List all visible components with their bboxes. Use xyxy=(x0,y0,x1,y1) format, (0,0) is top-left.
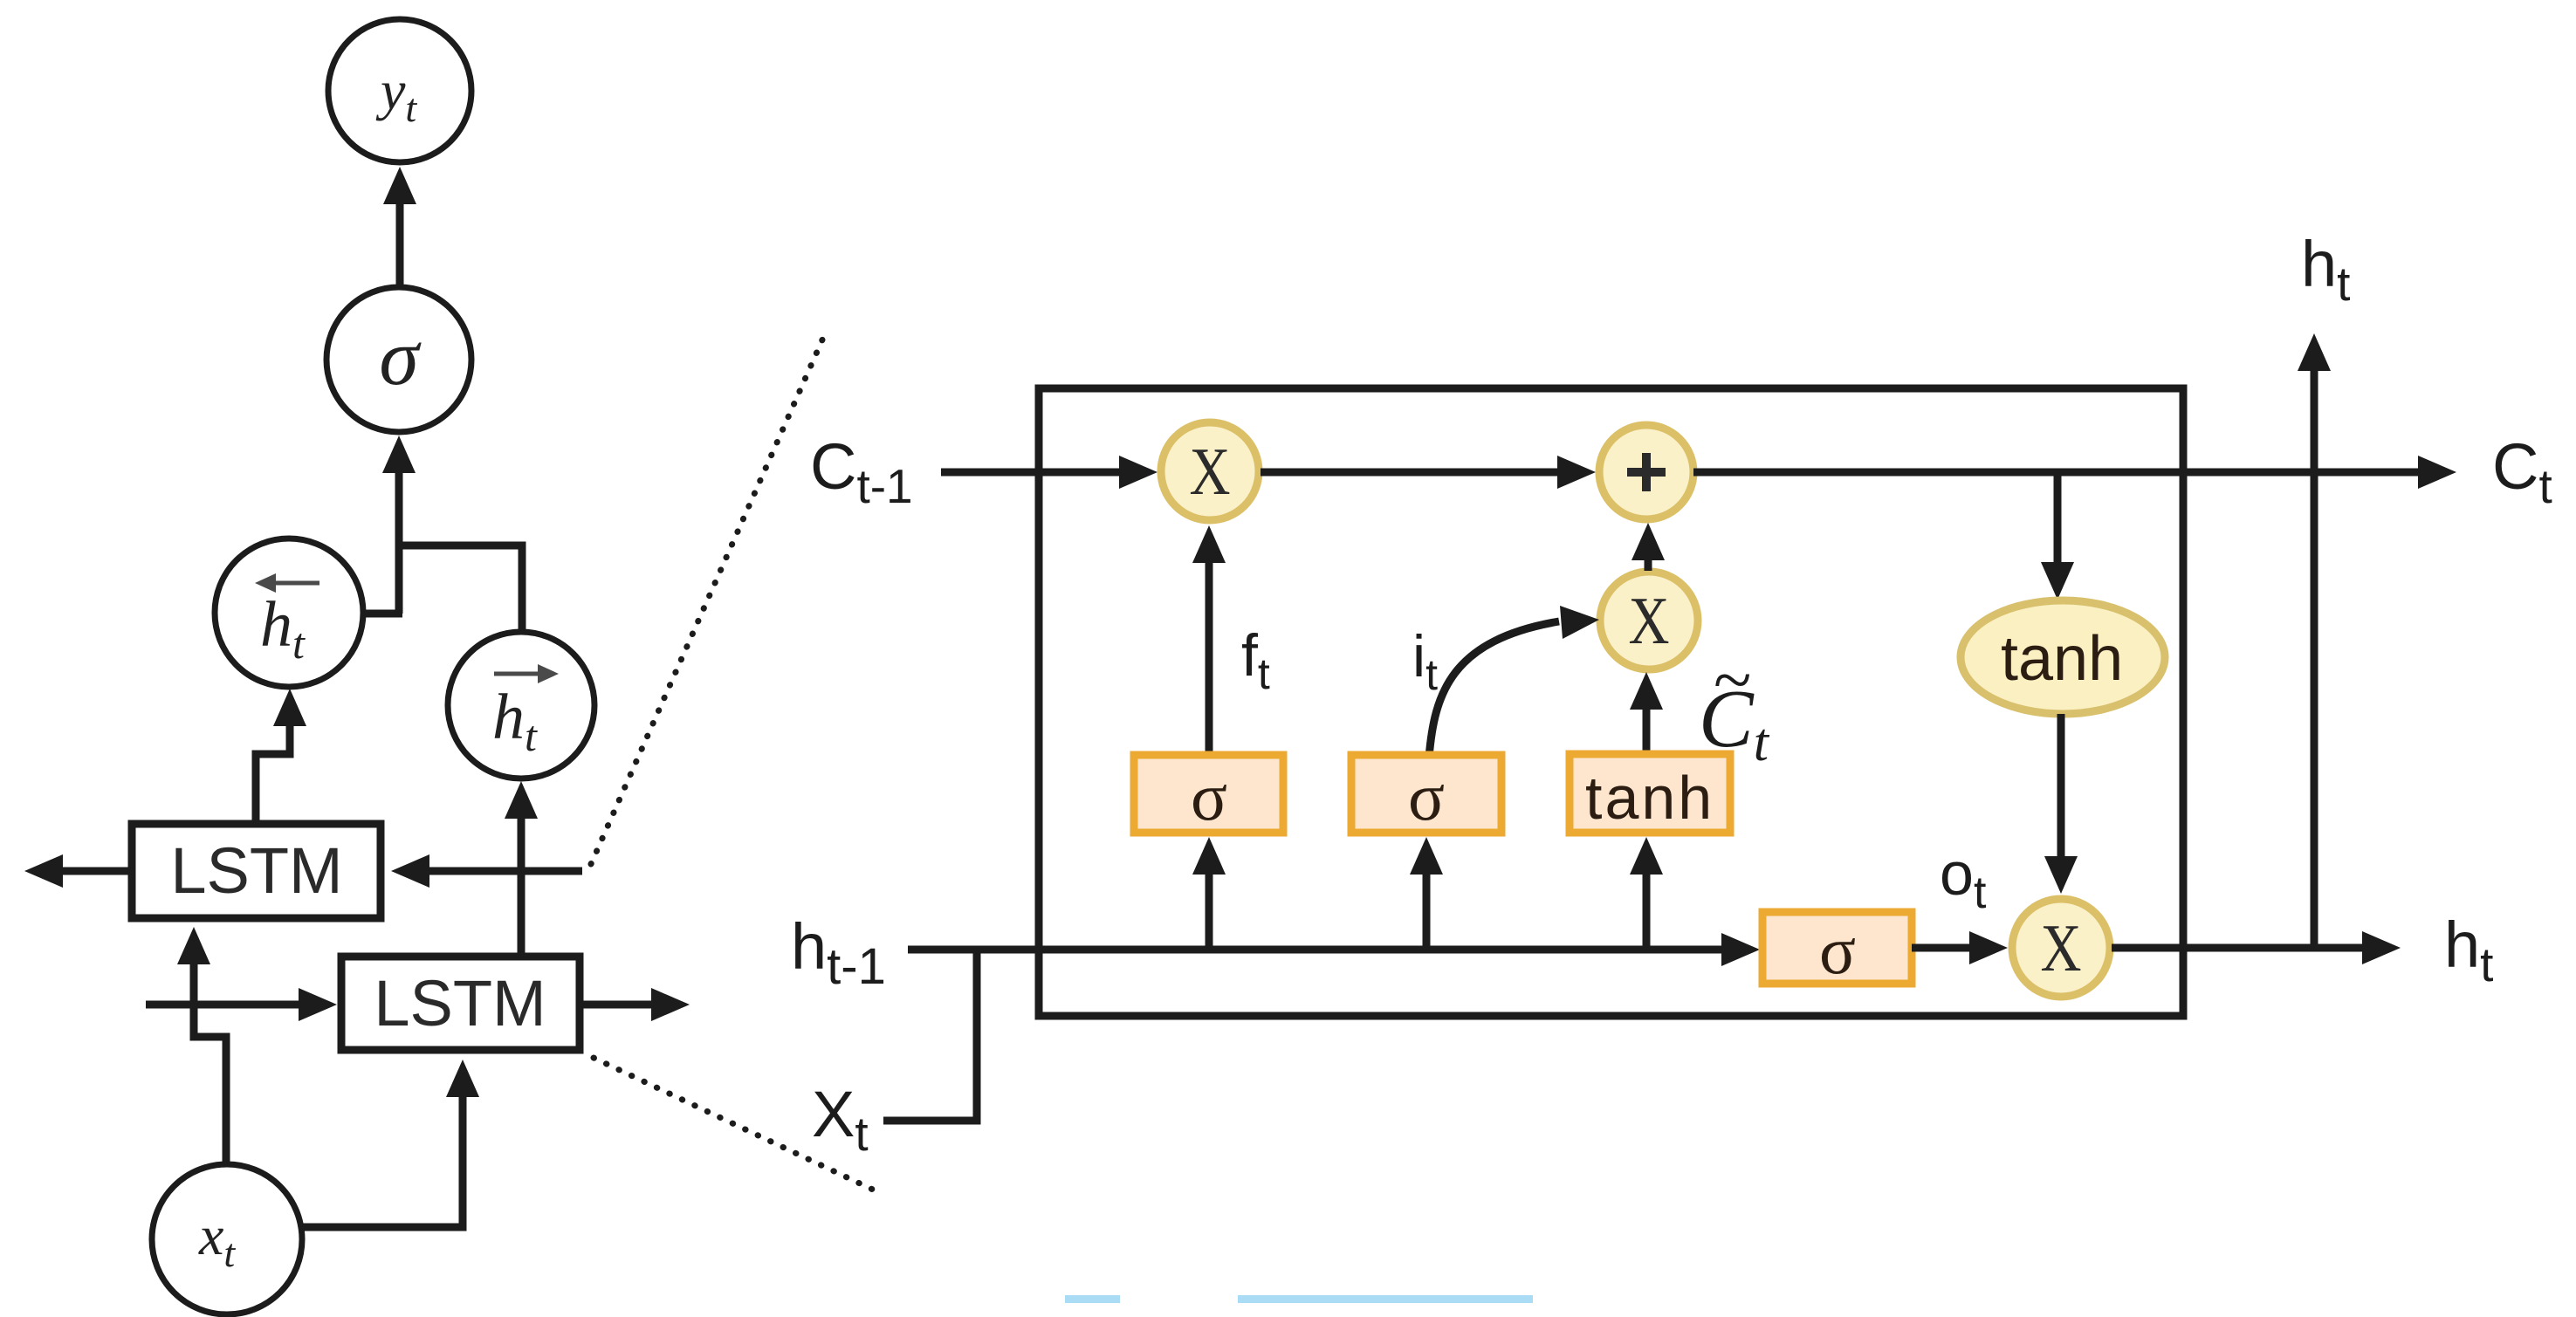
wire LSTM2 to forward h with arrow xyxy=(518,812,526,953)
wire recurrent into LSTM1 right with arrow xyxy=(424,868,582,875)
box LSTM backward xyxy=(132,824,381,918)
box LSTM forward xyxy=(341,957,580,1050)
wire x_t up to LSTM1 bottom (zigzag with arrow) xyxy=(194,958,226,1163)
svg-text:σ: σ xyxy=(379,312,422,401)
wire branch to forward h xyxy=(399,545,522,631)
wire mult2 to plus with arrow xyxy=(1645,555,1652,571)
wire sigma4 to mult3 with arrow xyxy=(1912,944,1975,952)
wire X_t riser to h line xyxy=(883,950,977,1121)
wire tanh-box arrow up to mult2 xyxy=(1643,704,1651,754)
wire h line from h_t-1 to sigma4 with arrow xyxy=(908,946,1727,954)
wire link from backward h circle xyxy=(364,610,402,618)
node x_t circle xyxy=(152,1164,302,1314)
node forward h_t circle xyxy=(448,632,594,779)
node backward h_t circle xyxy=(215,538,363,687)
wire gate arrow up 1 xyxy=(1206,869,1213,950)
wire forget arrow sigma1 to mult1 xyxy=(1206,558,1213,755)
dotted zoom line upper xyxy=(591,330,827,864)
svg-text:X: X xyxy=(2041,910,2082,985)
gate mult3 circle xyxy=(2012,899,2110,997)
wire drop from C line to tanh ellipse with arrow xyxy=(2054,472,2062,569)
gate box sigma1 xyxy=(1134,755,1283,833)
svg-text:tanh: tanh xyxy=(1585,764,1714,832)
svg-text:σ: σ xyxy=(1191,758,1227,834)
wire LSTM2 output right arrow xyxy=(583,1001,656,1009)
gate plus circle xyxy=(1599,425,1693,519)
svg-text:σ: σ xyxy=(1408,758,1445,834)
node sigma circle xyxy=(326,287,471,432)
wire h out to h_t right with arrow xyxy=(2112,944,2367,952)
wire C line mult1 to plus with arrow xyxy=(1261,469,1563,477)
svg-text:X: X xyxy=(1629,583,1670,658)
wire LSTM1 output left arrow xyxy=(58,868,128,875)
wire x_t to LSTM2 bottom with arrow xyxy=(303,1091,463,1227)
blue artifact bar 2 xyxy=(1238,1295,1533,1303)
wire tanh ellipse to mult3 with arrow xyxy=(2057,714,2065,862)
right arrow over h xyxy=(494,672,547,676)
svg-text:LSTM: LSTM xyxy=(170,834,342,907)
svg-text:X: X xyxy=(1190,434,1231,509)
gate tanh ellipse xyxy=(1961,600,2165,714)
svg-text:~: ~ xyxy=(1713,642,1750,719)
left arrow over h xyxy=(266,581,319,586)
gate box tanh xyxy=(1570,754,1730,833)
blue artifact bar 1 xyxy=(1065,1295,1120,1303)
svg-text:tanh: tanh xyxy=(2001,624,2123,694)
node y_t circle xyxy=(328,19,471,162)
svg-text:σ: σ xyxy=(1819,912,1856,988)
wire C line out to C_t with arrow xyxy=(1693,469,2423,477)
wire gate arrow up 3 xyxy=(1643,869,1651,950)
gate mult1 circle xyxy=(1161,422,1259,520)
wire forward input into LSTM2 with arrow xyxy=(146,1001,304,1009)
wire trunk below sigma with arrow into sigma xyxy=(395,468,403,614)
wire input curved arrow sigma2 to mult2 xyxy=(1429,621,1559,758)
cell box xyxy=(1039,388,2183,1016)
gate box sigma2 xyxy=(1351,755,1501,833)
gate mult2 circle xyxy=(1600,572,1698,669)
wire gate arrow up 2 xyxy=(1423,869,1431,950)
svg-text:LSTM: LSTM xyxy=(374,967,546,1039)
dotted zoom line lower xyxy=(594,1058,875,1190)
gate box sigma4 xyxy=(1762,912,1912,984)
wire h_t up vertical with arrow xyxy=(2311,367,2318,948)
wire LSTM1 to backward h with arrow (zigzag) xyxy=(256,717,290,820)
wire sigma to y_t with arrow xyxy=(396,199,404,290)
wire C line into mult1 with arrow xyxy=(941,469,1124,477)
